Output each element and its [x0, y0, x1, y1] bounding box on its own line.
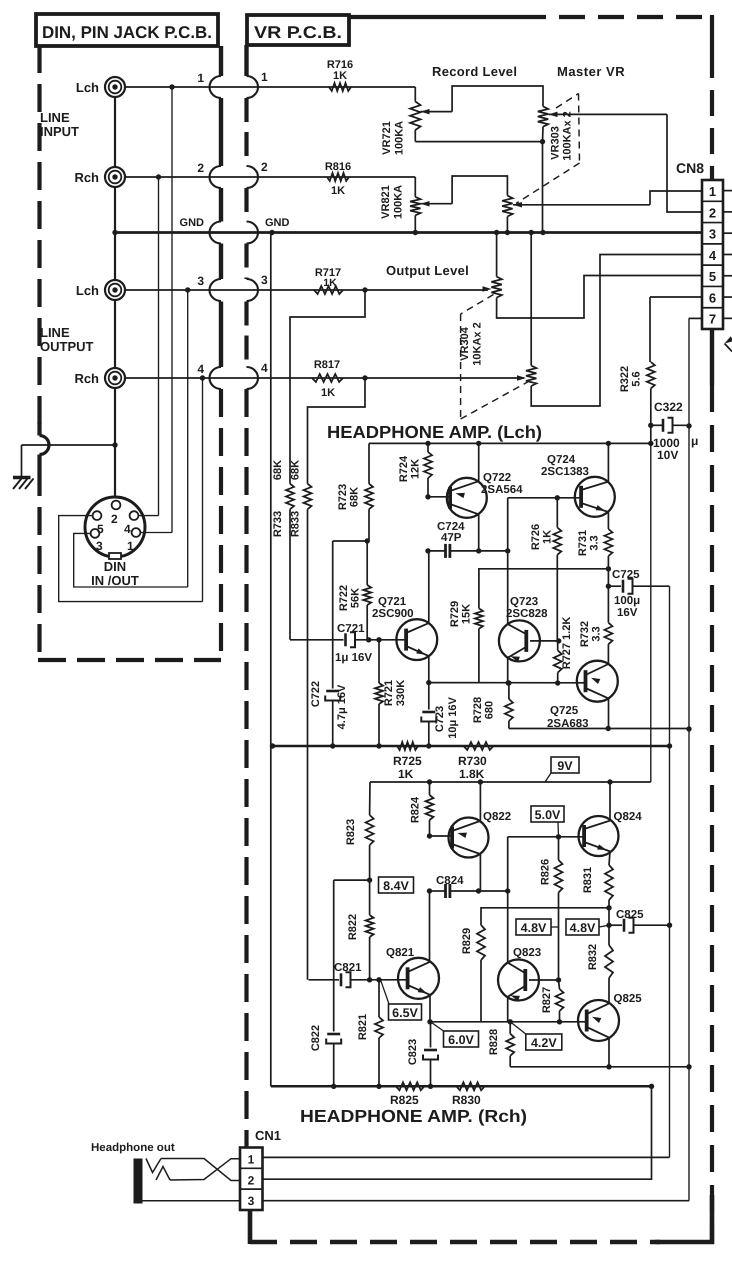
svg-text:R824: R824 — [410, 796, 422, 823]
svg-text:R829: R829 — [461, 928, 473, 954]
svg-text:1: 1 — [197, 71, 204, 85]
svg-text:330K: 330K — [395, 680, 407, 706]
svg-text:1: 1 — [248, 1153, 255, 1167]
svg-text:100KA: 100KA — [394, 121, 406, 155]
svg-text:Q721: Q721 — [378, 596, 407, 608]
svg-text:Q824: Q824 — [614, 811, 643, 823]
svg-text:C824: C824 — [436, 875, 464, 887]
svg-text:68K: 68K — [272, 460, 284, 480]
svg-text:10μ 16V: 10μ 16V — [447, 697, 459, 739]
svg-text:R733: R733 — [272, 511, 284, 537]
svg-text:R728: R728 — [472, 697, 484, 723]
svg-text:Q725: Q725 — [550, 705, 579, 717]
svg-text:1: 1 — [127, 539, 134, 553]
svg-text:2: 2 — [197, 161, 204, 175]
svg-text:100μ: 100μ — [614, 595, 640, 607]
svg-text:12K: 12K — [410, 459, 422, 479]
svg-text:3: 3 — [261, 273, 268, 287]
svg-text:R821: R821 — [357, 1014, 369, 1040]
svg-text:R823: R823 — [345, 819, 357, 845]
svg-text:VR303: VR303 — [550, 126, 562, 160]
svg-text:1.8K: 1.8K — [459, 767, 485, 781]
svg-text:DIN, PIN JACK P.C.B.: DIN, PIN JACK P.C.B. — [42, 23, 212, 42]
svg-text:C823: C823 — [407, 1039, 419, 1065]
svg-text:2: 2 — [261, 160, 268, 174]
svg-text:CN1: CN1 — [255, 1128, 281, 1143]
svg-text:R726: R726 — [530, 524, 542, 550]
svg-text:Lch: Lch — [76, 283, 99, 298]
svg-text:C725: C725 — [612, 569, 640, 581]
svg-text:C825: C825 — [616, 909, 644, 921]
svg-text:Record Level: Record Level — [432, 64, 517, 79]
svg-text:R832: R832 — [587, 944, 599, 970]
svg-text:Output Level: Output Level — [386, 263, 469, 278]
svg-text:Master VR: Master VR — [557, 64, 625, 79]
svg-text:R721: R721 — [383, 680, 395, 706]
svg-text:C723: C723 — [434, 706, 446, 732]
svg-text:4.8V: 4.8V — [570, 921, 596, 935]
svg-text:R729: R729 — [449, 601, 461, 627]
svg-text:Q722: Q722 — [483, 472, 511, 484]
svg-text:1: 1 — [709, 184, 716, 199]
svg-text:2SC1383: 2SC1383 — [541, 466, 589, 478]
svg-text:R827: R827 — [541, 987, 553, 1013]
svg-text:1K: 1K — [323, 277, 337, 289]
svg-text:R826: R826 — [540, 859, 552, 885]
svg-text:1: 1 — [261, 70, 268, 84]
svg-text:R731: R731 — [577, 530, 589, 556]
svg-text:4.7μ 16V: 4.7μ 16V — [336, 684, 348, 729]
svg-text:15K: 15K — [461, 604, 473, 624]
svg-text:2SC900: 2SC900 — [372, 608, 414, 620]
svg-text:VR721: VR721 — [381, 121, 393, 155]
svg-text:Q724: Q724 — [547, 454, 576, 466]
svg-text:5: 5 — [97, 522, 104, 536]
svg-text:5.0V: 5.0V — [535, 808, 561, 822]
svg-text:R822: R822 — [347, 914, 359, 940]
svg-text:3: 3 — [709, 227, 716, 242]
svg-text:R833: R833 — [290, 511, 302, 537]
svg-text:2: 2 — [111, 512, 118, 526]
svg-text:R724: R724 — [398, 455, 410, 482]
svg-text:2: 2 — [248, 1174, 255, 1188]
svg-text:R825: R825 — [390, 1093, 419, 1107]
svg-text:47P: 47P — [441, 532, 462, 544]
svg-text:LINE: LINE — [40, 325, 70, 340]
svg-text:R732: R732 — [579, 621, 591, 647]
svg-text:3.3: 3.3 — [591, 626, 603, 641]
svg-text:C822: C822 — [310, 1025, 322, 1051]
svg-text:C322: C322 — [654, 400, 683, 414]
svg-text:C721: C721 — [337, 623, 365, 635]
svg-text:1K: 1K — [398, 767, 414, 781]
svg-text:INPUT: INPUT — [40, 124, 79, 139]
svg-text:R730: R730 — [458, 754, 487, 768]
svg-text:R322: R322 — [619, 366, 631, 392]
svg-text:6.0V: 6.0V — [448, 1033, 474, 1047]
svg-text:DIN: DIN — [104, 559, 126, 574]
svg-text:R828: R828 — [488, 1029, 500, 1055]
svg-text:LINE: LINE — [40, 110, 70, 125]
svg-text:68K: 68K — [290, 460, 302, 480]
svg-text:16V: 16V — [617, 607, 638, 619]
svg-text:4: 4 — [261, 361, 268, 375]
svg-text:C821: C821 — [334, 962, 362, 974]
svg-text:3.3: 3.3 — [589, 535, 601, 550]
svg-text:5: 5 — [709, 269, 716, 284]
svg-text:6.5V: 6.5V — [392, 1006, 418, 1020]
svg-text:OUTPUT: OUTPUT — [40, 339, 94, 354]
svg-text:100KA: 100KA — [393, 185, 405, 219]
svg-text:9V: 9V — [557, 759, 573, 773]
svg-text:Q821: Q821 — [386, 947, 415, 959]
svg-text:Q723: Q723 — [510, 596, 538, 608]
svg-text:7: 7 — [709, 312, 716, 327]
svg-text:R727 1.2K: R727 1.2K — [561, 617, 573, 670]
svg-text:R830: R830 — [452, 1093, 481, 1107]
svg-text:1μ 16V: 1μ 16V — [335, 652, 372, 664]
svg-text:4: 4 — [124, 522, 131, 536]
svg-text:CN8: CN8 — [676, 160, 704, 176]
svg-text:8.4V: 8.4V — [383, 879, 409, 893]
svg-text:68K: 68K — [349, 487, 361, 507]
svg-text:2SC828: 2SC828 — [506, 608, 548, 620]
svg-text:3: 3 — [248, 1194, 255, 1208]
svg-text:GND: GND — [265, 217, 290, 229]
svg-text:1K: 1K — [542, 530, 554, 544]
svg-text:3: 3 — [197, 274, 204, 288]
svg-text:2SA564: 2SA564 — [481, 484, 523, 496]
svg-text:R725: R725 — [393, 754, 422, 768]
svg-text:R831: R831 — [582, 867, 594, 893]
svg-text:3: 3 — [96, 539, 103, 553]
svg-text:C722: C722 — [310, 681, 322, 707]
svg-text:Q822: Q822 — [483, 811, 511, 823]
svg-text:μ: μ — [691, 434, 698, 448]
svg-text:4.2V: 4.2V — [531, 1036, 557, 1050]
svg-text:Q825: Q825 — [614, 993, 643, 1005]
svg-text:4.8V: 4.8V — [521, 921, 547, 935]
svg-text:R723: R723 — [337, 484, 349, 510]
svg-text:Lch: Lch — [76, 80, 99, 95]
svg-text:5.6: 5.6 — [631, 371, 643, 386]
svg-text:Q823: Q823 — [513, 947, 541, 959]
svg-text:100KAx 2: 100KAx 2 — [562, 111, 574, 161]
svg-text:IN /OUT: IN /OUT — [91, 573, 139, 588]
svg-text:R722: R722 — [338, 585, 350, 611]
svg-text:Rch: Rch — [74, 170, 99, 185]
svg-text:VR821: VR821 — [380, 185, 392, 219]
svg-text:10V: 10V — [657, 448, 678, 462]
svg-text:56K: 56K — [350, 588, 362, 608]
svg-text:6: 6 — [709, 290, 716, 305]
svg-text:10KAx 2: 10KAx 2 — [472, 322, 484, 365]
svg-text:VR P.C.B.: VR P.C.B. — [254, 23, 342, 42]
svg-text:HEADPHONE AMP. (Lch): HEADPHONE AMP. (Lch) — [327, 422, 542, 442]
svg-text:4: 4 — [709, 248, 717, 263]
svg-text:1K: 1K — [331, 185, 345, 197]
svg-text:R817: R817 — [314, 359, 340, 371]
svg-text:2: 2 — [709, 205, 716, 220]
svg-text:Headphone out: Headphone out — [91, 1142, 175, 1154]
svg-text:1K: 1K — [333, 70, 347, 82]
svg-text:4: 4 — [197, 362, 204, 376]
svg-text:680: 680 — [484, 701, 496, 719]
svg-text:HEADPHONE AMP. (Rch): HEADPHONE AMP. (Rch) — [300, 1106, 527, 1126]
svg-text:R816: R816 — [325, 161, 351, 173]
svg-text:1K: 1K — [321, 387, 335, 399]
svg-text:Rch: Rch — [74, 371, 99, 386]
svg-text:GND: GND — [180, 217, 205, 229]
